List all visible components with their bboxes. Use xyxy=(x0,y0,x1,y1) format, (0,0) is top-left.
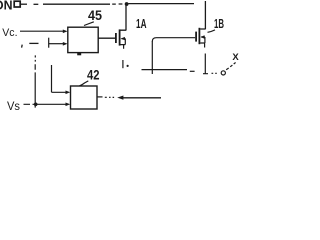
box 45 xyxy=(68,27,98,52)
svg-text:Vs: Vs xyxy=(7,99,20,113)
wire dashes before junction xyxy=(112,3,122,5)
input pad terminal xyxy=(14,1,20,7)
wire Vc to box 45 upper input xyxy=(20,30,63,32)
transistor Q1A channel bar xyxy=(119,29,121,45)
wire dashed vertical line B from Vs xyxy=(34,55,36,107)
svg-text:42: 42 xyxy=(87,67,100,83)
svg-text:1B: 1B xyxy=(214,16,224,31)
transistor Q1A source wire xyxy=(120,45,125,49)
junction dot node xyxy=(125,2,129,6)
svg-text:45: 45 xyxy=(88,7,102,23)
wire dash on top rail xyxy=(34,3,39,5)
transistor Q1A drain wire xyxy=(120,4,126,30)
wire source rail xyxy=(142,69,188,71)
wire gate of Q1A from box 45 output xyxy=(99,37,116,39)
transistor Q1B body arrow xyxy=(201,37,205,43)
leader line for 42 xyxy=(79,81,88,86)
wire dots to switch contact xyxy=(212,72,217,74)
box 42 output wire with left arrow xyxy=(97,96,103,98)
svg-text:Vc.: Vc. xyxy=(2,27,17,39)
wire Vs to box 42 lower input xyxy=(24,103,66,105)
box 45 bottom stub xyxy=(77,53,81,55)
transistor Q1B source wire xyxy=(200,43,205,48)
wire rail dash right xyxy=(190,70,195,72)
switch contact circle xyxy=(221,71,225,75)
transistor Q1B drain wire xyxy=(200,1,206,29)
wire top rail right segment xyxy=(128,3,194,5)
junction dot on Vs line xyxy=(34,103,38,107)
transistor Q1A body arrow xyxy=(122,39,126,45)
switch blade dashes to X xyxy=(226,63,235,70)
wire top rail long segment xyxy=(43,3,110,5)
svg-text:1A: 1A xyxy=(136,16,147,31)
wire dashed drop from Q1A source xyxy=(122,60,124,68)
wire lower input of box 45 (dash-dot) xyxy=(21,45,24,48)
transistor Q1B channel bar xyxy=(199,28,201,44)
svg-text:X: X xyxy=(232,52,239,63)
wire Q1B source drop to switch xyxy=(203,54,208,74)
wire stub from pad xyxy=(21,3,27,5)
wire gate line of Q1B with corner xyxy=(152,38,195,42)
wire vertical from Q1B gate line to source rail xyxy=(151,41,153,74)
box 42 xyxy=(71,86,98,109)
transistor Q1A gate bar xyxy=(115,33,117,43)
leader line for 45 xyxy=(84,22,94,26)
svg-text:ON: ON xyxy=(0,0,13,13)
transistor Q1B gate bar xyxy=(195,32,197,42)
leader line for 1B xyxy=(208,30,216,32)
wire vertical line A to box 42 upper input xyxy=(52,65,66,92)
